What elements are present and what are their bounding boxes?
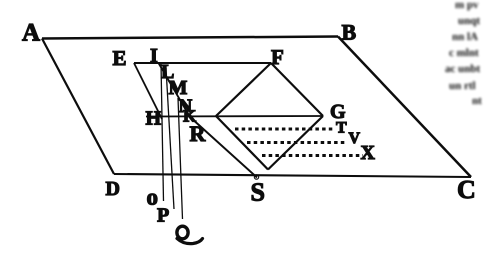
svg-text:nt: nt [472, 95, 482, 107]
svg-text:X: X [361, 142, 376, 164]
wire: band line K-S [190, 117, 257, 178]
svg-text:T: T [336, 120, 347, 137]
wire: outer side A-B (top) [42, 37, 338, 39]
svg-text:D: D [106, 178, 120, 200]
wire: vertical line to Q [178, 98, 183, 219]
svg-text:un rtl: un rtl [449, 80, 476, 92]
wire: inner side E-H (left) [134, 63, 162, 119]
svg-text:m pv: m pv [455, 0, 479, 11]
wire: outer side A-D (left) [42, 39, 114, 175]
svg-text:E: E [113, 46, 127, 70]
svg-text:A: A [22, 20, 40, 47]
wire: outer side D-C (bottom) [114, 174, 471, 177]
svg-text:ac unbt: ac unbt [445, 63, 480, 75]
svg-text:I: I [150, 45, 158, 67]
wire: diamond side F-left [216, 63, 271, 116]
wire: diamond side left-bottom [216, 116, 268, 170]
dotted row 1 (to T) [235, 128, 335, 131]
wire: diamond side bottom-G [268, 116, 323, 170]
ghost text bleed-through right margin [445, 0, 482, 107]
svg-text:B: B [342, 20, 357, 45]
wire: fold line I-K [159, 63, 191, 117]
svg-text:F: F [271, 45, 284, 69]
svg-text:V: V [349, 130, 361, 147]
svg-text:C: C [457, 175, 476, 204]
dotted row 2 (to V) [247, 141, 347, 144]
node A label [22, 20, 476, 244]
svg-text:S: S [251, 178, 265, 207]
wire: vertical line to P [166, 68, 174, 209]
wire: vertical line to O [161, 63, 164, 201]
wire: outer side B-C (right) [338, 37, 471, 178]
wire: inner side E-F (top) [134, 62, 271, 64]
svg-text:nn lA: nn lA [452, 31, 478, 43]
node S hook [254, 175, 258, 179]
svg-text:unqt: unqt [458, 15, 480, 27]
svg-text:H: H [146, 108, 162, 130]
svg-text:R: R [190, 121, 207, 146]
svg-text:c mlnt: c mlnt [449, 47, 479, 59]
wire: diamond side F-G [271, 63, 323, 116]
wire: inner side H-G (bottom, through diamond diagonal) [146, 115, 323, 118]
dotted row 3 (to X) [262, 154, 363, 157]
svg-text:P: P [157, 205, 169, 227]
node Q label [177, 226, 188, 239]
